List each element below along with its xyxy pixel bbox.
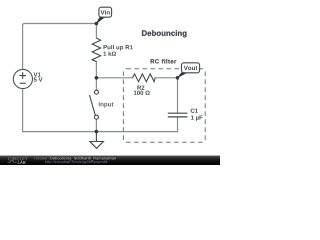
RC filter dashed enclosure (123, 69, 205, 142)
wire: switch bottom to ground rail (95, 119, 97, 131)
watermark logo CIRCUIT (8, 157, 27, 160)
net flag Vin box (99, 7, 112, 17)
value 5 V (34, 77, 43, 81)
title Debouncing (142, 30, 186, 37)
wire: Vin node to R1 top (95, 24, 97, 39)
capacitor C1 top plate (168, 112, 188, 114)
label C1 (191, 109, 198, 113)
ground stub (95, 132, 97, 142)
switch top contact (94, 90, 98, 94)
capacitor C1 bottom plate (168, 116, 188, 118)
net flag Vout box (182, 63, 200, 73)
watermark created label (34, 157, 49, 161)
value 100 Ohm (134, 91, 150, 95)
net flag Vout tail (178, 72, 187, 77)
wire: node A to R2 left (96, 77, 132, 79)
resistor R2 (133, 74, 156, 82)
wire: R1 bottom to switch top (95, 61, 97, 90)
value 1 uF (191, 115, 203, 120)
label V1 (34, 72, 41, 76)
net flag Vin text (101, 10, 110, 14)
junction dot at node A (95, 76, 99, 80)
net flag Vout text (184, 66, 198, 70)
junction dot at ground rail (95, 130, 99, 134)
wire: V1 bottom to ground rail (22, 89, 24, 132)
label Pull up R1 (104, 45, 133, 51)
junction dot at Vin node (95, 22, 99, 26)
watermark logo LAB (18, 161, 26, 164)
switch SW1 lever (90, 95, 96, 116)
ground symbol (90, 142, 104, 149)
junction dot at Vout node (176, 76, 180, 80)
resistor R1 (92, 38, 100, 62)
wire: Vout node to C1 top (177, 78, 179, 113)
V1 minus sign (20, 82, 26, 84)
label Input (99, 102, 114, 108)
label R2 (137, 86, 144, 90)
voltage source V1 (13, 69, 32, 88)
wire: C1 bottom lead (177, 117, 179, 132)
switch bottom contact (94, 115, 98, 119)
watermark url line (45, 160, 108, 164)
value 1 kOhm (103, 51, 116, 55)
label RC filter (151, 59, 177, 63)
wire: bottom ground rail (22, 131, 178, 133)
net flag Vin tail (96, 16, 105, 23)
V1 plus sign (19, 72, 26, 79)
watermark title name (50, 157, 116, 161)
wire: R2 right to Vout node (155, 77, 178, 79)
wire: V1 top to Vin node (23, 24, 97, 70)
watermark logo waveform (8, 161, 17, 162)
